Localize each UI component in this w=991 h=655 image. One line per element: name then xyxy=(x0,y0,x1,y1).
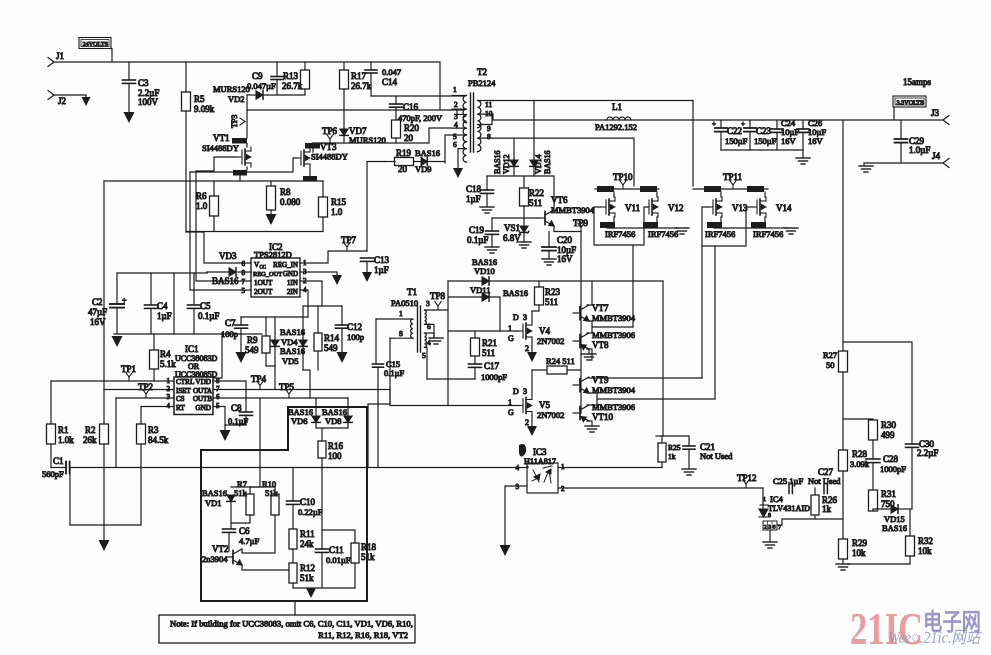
svg-text:R32: R32 xyxy=(918,536,933,546)
svg-text:C23: C23 xyxy=(756,126,772,136)
transformer T1 core xyxy=(417,306,419,352)
diode IC3 LED xyxy=(532,470,540,482)
transistor V12 source pad xyxy=(643,222,658,228)
wire VT1 gate xyxy=(196,157,238,171)
svg-text:100p: 100p xyxy=(221,329,238,339)
svg-text:15amps: 15amps xyxy=(903,77,931,87)
ground bars output return xyxy=(863,163,865,165)
svg-text:R9: R9 xyxy=(247,335,258,345)
svg-text:1: 1 xyxy=(399,309,403,318)
transistor V13 source pad xyxy=(707,222,722,228)
svg-text:0.047: 0.047 xyxy=(382,67,401,77)
resistor R23 xyxy=(538,281,540,287)
wire +24V rail y62 xyxy=(53,61,440,63)
svg-text:VDD: VDD xyxy=(195,378,211,386)
svg-text:SI4488DY: SI4488DY xyxy=(311,152,348,162)
resistor R14 xyxy=(317,306,319,333)
wire C17 row to gate node xyxy=(427,378,475,380)
wire R7 bottom xyxy=(231,515,250,523)
svg-text:C5: C5 xyxy=(200,301,211,311)
svg-text:MURS120: MURS120 xyxy=(349,135,386,145)
capacitor C16 xyxy=(395,96,397,104)
ground arrow C13 xyxy=(362,272,372,282)
wire V5 gate stub xyxy=(390,405,519,407)
svg-text:VD1: VD1 xyxy=(205,498,222,508)
resistor R17 xyxy=(343,62,345,70)
svg-text:Note: If building for UCC38083: Note: If building for UCC38083, omit C6,… xyxy=(170,619,413,629)
svg-text:8: 8 xyxy=(242,269,246,277)
capacitor C5 xyxy=(193,273,195,305)
diode VD14 BAS16 xyxy=(533,101,535,161)
svg-text:3: 3 xyxy=(523,387,527,396)
transistor V14 source pad xyxy=(751,222,766,228)
wire current sense rail y181 xyxy=(104,180,323,182)
transformer T2 bias winding 5-6 xyxy=(463,135,466,162)
wire OUTA pin7 xyxy=(213,389,390,391)
wire CS pin3 xyxy=(116,397,174,399)
svg-text:BAS16: BAS16 xyxy=(280,327,305,337)
wire R3 return y525 xyxy=(70,524,141,526)
wire VD10 rail to R25/C21 xyxy=(662,281,664,436)
svg-text:J3: J3 xyxy=(931,108,940,118)
svg-text:C8: C8 xyxy=(231,403,242,413)
capacitor C28 xyxy=(866,459,880,463)
resistor R22 xyxy=(523,176,525,188)
svg-text:51k: 51k xyxy=(361,552,375,562)
wire C1 drop xyxy=(69,468,71,526)
capacitor C21 xyxy=(688,436,690,446)
wire VT6 base rail y218 xyxy=(492,217,538,219)
wire T2 pin1 net y96 xyxy=(371,95,464,97)
ground bars capacitor bank xyxy=(802,150,804,158)
transistor VT8 MMBT3906 xyxy=(573,333,589,350)
capacitor C15 xyxy=(375,319,377,364)
svg-text:100V: 100V xyxy=(138,97,159,107)
wire capacitor bank bottom y150 xyxy=(721,149,803,151)
svg-text:C12: C12 xyxy=(347,322,362,332)
svg-text:VT1: VT1 xyxy=(213,133,230,143)
svg-text:TP2: TP2 xyxy=(138,382,153,392)
wire optional components box outline xyxy=(201,407,367,601)
svg-text:C19: C19 xyxy=(469,225,485,235)
wire 24VOLTS box to rail xyxy=(110,49,112,63)
wire driver output to V11 gates xyxy=(592,326,633,328)
svg-text:R11, R12, R16, R18, VT2: R11, R12, R16, R18, VT2 xyxy=(318,630,408,640)
svg-text:C7: C7 xyxy=(225,318,236,328)
svg-text:51k: 51k xyxy=(300,573,314,583)
resistor R30 xyxy=(869,420,878,440)
wire VD2 node down to VT1 drain xyxy=(246,95,248,138)
wire box to note xyxy=(294,601,296,615)
svg-text:6: 6 xyxy=(773,525,776,531)
svg-text:VD2: VD2 xyxy=(228,94,245,104)
svg-text:T2: T2 xyxy=(477,67,487,77)
wire V13/V14 drain rail xyxy=(693,188,768,190)
svg-text:D: D xyxy=(513,387,519,396)
svg-text:TP7: TP7 xyxy=(341,235,357,245)
svg-text:BAS16: BAS16 xyxy=(280,346,305,356)
wire VT7/VT8 emitters join xyxy=(587,281,592,305)
svg-text:2OUT: 2OUT xyxy=(254,288,273,296)
inductor L1 PA1292.152 xyxy=(607,117,631,120)
ground bars VT10 tail xyxy=(585,426,599,432)
svg-text:Wee○.21ic.网站: Wee○.21ic.网站 xyxy=(888,628,983,647)
transistor VT3 SI4488DY drain pad xyxy=(305,143,320,149)
wire output return y163 xyxy=(864,162,943,164)
wire gate drive to V11 loop xyxy=(632,245,634,327)
transistor V14 IRF7456 drain pad xyxy=(747,186,764,192)
svg-text:9.09k: 9.09k xyxy=(194,104,215,114)
connector J2 xyxy=(48,91,54,100)
svg-text:560pF: 560pF xyxy=(42,469,64,479)
resistor R11 xyxy=(289,529,297,549)
svg-text:R11: R11 xyxy=(300,529,315,539)
svg-text:C3: C3 xyxy=(138,78,149,88)
svg-text:2n3904: 2n3904 xyxy=(202,554,228,564)
capacitor C24 xyxy=(776,120,778,129)
svg-text:R21: R21 xyxy=(482,338,497,348)
transformer T2 secondary winding 9-8 xyxy=(478,125,481,152)
svg-text:150µF: 150µF xyxy=(754,136,777,146)
wire V5 source xyxy=(531,416,533,427)
svg-text:R31: R31 xyxy=(881,489,896,499)
svg-text:R30: R30 xyxy=(881,420,897,430)
svg-text:MMBT3904: MMBT3904 xyxy=(592,385,636,395)
resistor R25 xyxy=(661,436,663,443)
resistor R7 xyxy=(249,487,251,494)
diode VD7 MURS120 xyxy=(343,128,345,129)
wire T1 pin3 gate node vertical xyxy=(447,281,449,406)
op-amp IC3 H11A817 xyxy=(527,463,558,493)
svg-text:C22: C22 xyxy=(727,126,742,136)
resistor R15 xyxy=(322,181,324,197)
diode VD15 BAS16 xyxy=(891,505,898,513)
svg-text:TP12: TP12 xyxy=(737,473,757,483)
svg-text:RT: RT xyxy=(176,404,185,412)
resistor R9 xyxy=(265,317,267,336)
svg-text:3: 3 xyxy=(167,393,171,401)
ground bars C21 xyxy=(682,469,696,475)
wire R32 bottom to R29 ground xyxy=(848,563,910,565)
svg-text:1000pF: 1000pF xyxy=(880,464,906,474)
svg-text:C18: C18 xyxy=(466,184,482,194)
svg-text:C28: C28 xyxy=(883,454,899,464)
svg-text:47µF: 47µF xyxy=(88,307,107,317)
wire sense rail to R2 column xyxy=(103,181,105,390)
svg-text:TP1: TP1 xyxy=(121,364,136,374)
transistor VT2 2n3904 xyxy=(226,549,242,565)
ground arrow C7 xyxy=(236,352,247,363)
svg-text:26k: 26k xyxy=(83,435,97,445)
transistor VT1 source pad xyxy=(233,170,247,176)
svg-text:MMBT3906: MMBT3906 xyxy=(592,402,635,412)
svg-text:16V: 16V xyxy=(781,136,797,146)
svg-text:MMBT3904: MMBT3904 xyxy=(551,205,595,215)
svg-text:50: 50 xyxy=(826,360,835,370)
svg-text:0.22µF: 0.22µF xyxy=(298,507,323,517)
wire R20 bottom to T2 pin4 y143 xyxy=(313,128,452,143)
wire V11/V12 gate loop xyxy=(594,207,649,245)
svg-text:TP8: TP8 xyxy=(430,291,446,301)
wire IC3 pin1 to R25 xyxy=(558,467,662,469)
svg-text:R4: R4 xyxy=(160,349,171,359)
svg-text:R22: R22 xyxy=(529,188,544,198)
svg-text:CTRL: CTRL xyxy=(176,378,194,386)
wire feedback line y467 to IC3 xyxy=(51,467,66,469)
ground bars C18 xyxy=(480,207,494,213)
wire R30 branch xyxy=(843,342,912,444)
svg-text:0.080: 0.080 xyxy=(280,197,301,207)
svg-text:R3: R3 xyxy=(148,425,159,435)
svg-text:2: 2 xyxy=(525,418,529,427)
svg-text:BAS16: BAS16 xyxy=(415,148,440,158)
svg-text:51k: 51k xyxy=(234,488,248,498)
node note box xyxy=(159,615,415,643)
svg-text:16V: 16V xyxy=(90,317,106,327)
capacitor C20 xyxy=(548,232,550,248)
ground bars R29 xyxy=(836,564,850,570)
wire 1IN cluster rail y306 xyxy=(303,305,342,307)
svg-text:CS: CS xyxy=(176,395,185,403)
wire TLV ref row y519 xyxy=(777,519,843,525)
svg-text:R25: R25 xyxy=(668,443,681,452)
svg-text:20: 20 xyxy=(398,164,408,174)
svg-text:R16: R16 xyxy=(328,441,344,451)
wire IC2 Vcc pin6 xyxy=(186,232,251,263)
svg-text:VT9: VT9 xyxy=(592,375,609,385)
wire IC2 1IN pin2 xyxy=(300,281,322,306)
wire OUTB to VD8 xyxy=(347,398,349,415)
svg-text:100p: 100p xyxy=(347,332,364,342)
wire VDD feed xyxy=(213,334,222,378)
svg-text:6: 6 xyxy=(427,322,431,331)
svg-text:1000pF: 1000pF xyxy=(481,372,507,382)
svg-text:549: 549 xyxy=(245,345,259,355)
svg-text:VT3: VT3 xyxy=(320,142,337,152)
resistor R1 xyxy=(50,381,52,424)
resistor R6 xyxy=(213,181,215,196)
transistor V11 IRF7456 xyxy=(602,197,615,217)
diode TLV431 symbol xyxy=(759,505,768,517)
wire V11/V12 source rail to ground xyxy=(607,227,678,229)
wire 2IN cluster rail y317 xyxy=(241,316,308,318)
svg-text:0.1µF: 0.1µF xyxy=(228,416,249,426)
resistor R28 xyxy=(839,450,848,471)
capacitor C10 xyxy=(292,468,294,502)
svg-text:24VOLTS: 24VOLTS xyxy=(83,41,109,48)
svg-text:6: 6 xyxy=(242,260,246,268)
svg-text:2: 2 xyxy=(454,100,458,109)
svg-text:0.01µF: 0.01µF xyxy=(326,555,351,565)
ground bars VS1 xyxy=(517,242,531,248)
resistor R8 xyxy=(270,181,272,186)
transformer T2 primary winding 1-2 xyxy=(463,96,466,123)
transistor V14 IRF7456 xyxy=(753,197,766,217)
capacitor C7 xyxy=(240,317,242,325)
svg-text:IC4: IC4 xyxy=(770,494,784,504)
svg-text:PA0510: PA0510 xyxy=(391,298,418,308)
svg-text:20: 20 xyxy=(404,133,414,143)
svg-text:6: 6 xyxy=(453,140,457,149)
wire feedback column x843 upper xyxy=(842,120,844,351)
ground arrow IC2 GND xyxy=(332,275,342,285)
svg-text:VD3: VD3 xyxy=(219,251,237,261)
svg-text:TP11: TP11 xyxy=(723,172,742,182)
svg-text:1.0: 1.0 xyxy=(196,201,208,211)
svg-text:J1: J1 xyxy=(56,51,64,61)
svg-text:VD8: VD8 xyxy=(325,416,342,426)
node 24VOLTS label box xyxy=(79,38,111,49)
svg-text:BAS16: BAS16 xyxy=(503,288,528,298)
svg-text:R1: R1 xyxy=(58,425,69,435)
wire T2 pin10 to output rail xyxy=(492,114,494,120)
svg-text:C13: C13 xyxy=(374,255,390,265)
ground bars V12 source xyxy=(675,228,689,234)
svg-text:R6: R6 xyxy=(196,191,207,201)
wire V13/V14 gate loop xyxy=(702,207,753,246)
svg-text:IRF7456: IRF7456 xyxy=(753,229,783,239)
wire V13/V14 source rail to ground xyxy=(714,227,788,229)
resistor R18 xyxy=(322,530,355,543)
ground bars V14 source xyxy=(784,228,798,234)
svg-text:3: 3 xyxy=(516,483,520,491)
wire sense return y231 xyxy=(186,231,323,233)
resistor R27 xyxy=(839,351,848,372)
svg-text:24k: 24k xyxy=(300,539,314,549)
resistor R4 xyxy=(150,350,159,369)
capacitor C30 xyxy=(906,444,919,447)
svg-text:C6: C6 xyxy=(239,526,250,536)
capacitor C2 47uF xyxy=(116,273,118,304)
svg-text:150µF: 150µF xyxy=(725,136,748,146)
wire VD9 feed from C13 node xyxy=(367,162,385,252)
svg-text:4.7µF: 4.7µF xyxy=(239,536,260,546)
svg-text:4: 4 xyxy=(516,464,520,472)
svg-text:C20: C20 xyxy=(557,235,573,245)
svg-text:10k: 10k xyxy=(918,546,932,556)
transistor IC3 photo xyxy=(543,466,552,483)
wire TLV431 to ground xyxy=(769,530,771,541)
wire GND pin5 xyxy=(213,407,225,431)
svg-text:ISET: ISET xyxy=(176,387,192,395)
op-amp IC1 UCC38083D xyxy=(174,377,213,415)
resistor R5 xyxy=(185,62,187,92)
svg-text:5: 5 xyxy=(242,287,246,295)
diode VD4 BAS16 xyxy=(274,317,276,340)
resistor R20 xyxy=(392,120,401,138)
svg-text:VD11: VD11 xyxy=(470,285,490,295)
diode VD5 BAS16 xyxy=(302,306,304,340)
svg-text:VT8: VT8 xyxy=(592,340,609,350)
capacitor C22 xyxy=(720,120,722,128)
capacitor C18 xyxy=(486,176,488,190)
svg-text:BAS16: BAS16 xyxy=(543,150,552,174)
wire IC2 GND pin3 xyxy=(300,272,337,275)
capacitor C17 xyxy=(469,364,482,367)
ground bars C20 xyxy=(542,259,556,265)
svg-text:1k: 1k xyxy=(822,504,832,514)
transistor V12 IRF7456 drain pad xyxy=(640,186,657,192)
wire VT9 collector to V13 loop xyxy=(587,377,592,379)
svg-text:+: + xyxy=(712,120,716,128)
wire VDD to C8 xyxy=(213,380,246,382)
transistor VT6 MMBT3904 xyxy=(538,210,554,226)
svg-text:V5: V5 xyxy=(539,400,550,410)
svg-text:2N7002: 2N7002 xyxy=(537,336,564,346)
svg-text:BAS16: BAS16 xyxy=(493,150,502,174)
svg-text:7: 7 xyxy=(242,278,246,286)
svg-text:0.1µF: 0.1µF xyxy=(384,368,405,378)
svg-text:IRF7456: IRF7456 xyxy=(605,229,635,239)
zener VS1 6.8V xyxy=(523,218,525,226)
ground bars T1 center tap xyxy=(429,338,443,344)
wire VD6/VD8 join xyxy=(316,427,348,429)
wire VT1 drain to C16/R20 node y110 xyxy=(247,109,440,111)
ground bars VT8 tail xyxy=(587,349,589,354)
connector J1 xyxy=(48,58,54,67)
wire V4 source xyxy=(531,341,533,352)
wire ISET pin2 xyxy=(104,389,174,391)
capacitor C13 xyxy=(361,258,374,261)
svg-text:VT7: VT7 xyxy=(592,303,609,313)
ground bars TLV431 xyxy=(763,542,777,548)
svg-text:1OUT: 1OUT xyxy=(254,279,273,287)
svg-text:IRF7456: IRF7456 xyxy=(648,229,678,239)
ground arrow V4 xyxy=(527,352,537,362)
ground arrow V5 xyxy=(527,426,537,436)
svg-text:100: 100 xyxy=(328,451,342,461)
wire CTRL pin1 xyxy=(51,380,174,382)
svg-text:26.7k: 26.7k xyxy=(282,81,303,91)
svg-text:Not Used: Not Used xyxy=(700,451,733,461)
capacitor C19 xyxy=(491,218,493,231)
capacitor C14 xyxy=(370,62,372,70)
svg-text:11: 11 xyxy=(485,100,492,109)
wire OUTB to VD6 xyxy=(315,398,317,415)
svg-text:GND: GND xyxy=(195,404,211,412)
svg-text:H11A817: H11A817 xyxy=(524,457,556,466)
diode VD9 BAS16 xyxy=(414,161,422,163)
transistor VT1 SI4488DY drain pad xyxy=(232,138,247,144)
transistor V11 IRF7456 drain pad xyxy=(597,186,614,192)
wire IC2 REG_IN pin1 to TP7 xyxy=(300,251,367,263)
svg-text:R17: R17 xyxy=(351,71,367,81)
capacitor C26 xyxy=(802,120,804,129)
svg-text:C1: C1 xyxy=(53,456,64,466)
wire VT2 emitter xyxy=(242,565,293,570)
resistor R32 xyxy=(909,509,911,536)
svg-text:C11: C11 xyxy=(329,545,344,555)
resistor R31 xyxy=(869,490,878,511)
wire TLV431 cathode xyxy=(762,488,764,508)
wire gate drive to V13 loop xyxy=(714,246,716,399)
svg-text:TP6: TP6 xyxy=(322,126,338,136)
ground arrow IC3 pin3 xyxy=(500,545,511,556)
wire Vcc rail to VD3 xyxy=(206,272,208,273)
wire VD15 row y509 xyxy=(873,508,891,510)
svg-text:R24 511: R24 511 xyxy=(546,356,575,366)
svg-text:8: 8 xyxy=(768,513,771,519)
transformer T1 secondary winding 3-6 xyxy=(425,310,427,324)
svg-text:1: 1 xyxy=(508,324,512,333)
svg-text:+: + xyxy=(122,296,127,305)
svg-text:5.1k: 5.1k xyxy=(160,359,176,369)
wire VT6 collector xyxy=(534,176,554,210)
transistor V13 IRF7456 drain pad xyxy=(704,186,721,192)
capacitor C8 xyxy=(245,381,247,412)
wire R24 row y370 xyxy=(532,369,580,371)
svg-text:R2: R2 xyxy=(85,425,96,435)
